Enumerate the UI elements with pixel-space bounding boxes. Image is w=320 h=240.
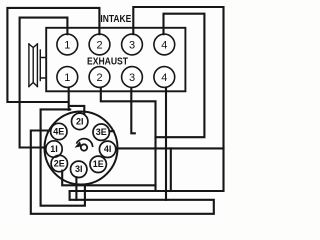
svg-text:4: 4 [161,39,167,51]
svg-text:1: 1 [64,39,70,51]
wire exhaust-1 plug down to tower 2I [69,88,85,114]
tower 2I [72,113,88,129]
wire tower 2E to mid drop [62,171,155,186]
svg-text:4E: 4E [53,126,64,136]
svg-text:3E: 3E [96,127,107,137]
tower 2E [51,155,67,171]
spark plug intake cylinder 1 [57,34,78,55]
spark plug exhaust cylinder 4 [154,67,175,88]
spark plug exhaust cylinder 1 [57,67,78,88]
svg-text:1I: 1I [50,144,58,154]
rotor circle [81,144,87,150]
tower 4I [99,141,115,157]
wire exhaust-4 plug drop [165,88,167,200]
wire tower 1I to intake-1 plug [20,18,68,148]
wire intake-2 plug around top-left [7,8,99,102]
tower 3I [71,161,87,177]
spark plug intake cylinder 2 [89,34,110,55]
svg-text:4: 4 [161,72,167,84]
spark plug intake cylinder 3 [122,34,143,55]
wire cap-rim loop left side [41,109,85,205]
spark plug exhaust cylinder 3 [122,67,143,88]
spark plug intake cylinder 4 [154,34,175,55]
tower 3E rim stub [109,130,113,132]
svg-text:1: 1 [64,72,70,84]
wire right connector drop [170,148,172,191]
spark plug exhaust cylinder 2 [89,67,110,88]
svg-text:EXHAUST: EXHAUST [87,56,128,67]
svg-text:3: 3 [129,72,135,84]
wire exhaust-3 plug stub [131,88,135,134]
engine block [46,28,185,92]
svg-text:3: 3 [129,39,135,51]
svg-text:4I: 4I [104,144,112,154]
wire tower 3I stub [75,177,77,200]
tower 1E [90,156,106,172]
svg-text:1E: 1E [93,159,104,169]
tower 1I [46,141,62,157]
wire intake-3 plug long chain to tower 4E [31,7,224,214]
wire exhaust-2 plug long drop [101,88,156,191]
svg-text:2E: 2E [54,158,65,168]
svg-text:3I: 3I [75,164,83,174]
rotor rotation arrow [77,139,93,147]
svg-text:2I: 2I [76,116,84,126]
svg-text:2: 2 [96,39,102,51]
wire tower 4I to right chain [116,147,224,149]
tower 3E [93,124,109,140]
svg-text:INTAKE: INTAKE [100,14,131,25]
wire intake-4 plug chain down right [156,14,205,138]
distributor cap body [45,112,118,185]
svg-text:2: 2 [96,72,102,84]
tower 4E [51,123,67,139]
crank pulley [29,44,46,87]
